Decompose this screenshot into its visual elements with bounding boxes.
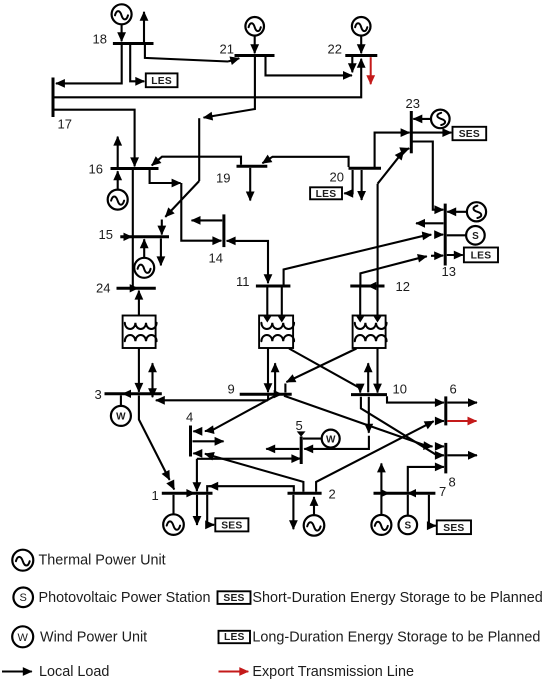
line 21-15 diagonal [165,181,199,217]
wire bus 11 to transformer [266,288,268,316]
wire gen 21 to bus 21 [254,36,256,54]
bus 10 [351,393,387,396]
wire bus 1 to SES [207,495,214,525]
svg-text:Wind Power Unit: Wind Power Unit [40,629,147,645]
bus 21 [235,54,275,57]
local load bus 14 [192,219,223,221]
line 14-11 arrow into bus 14 [227,240,233,242]
line 21-15 mid vertical [198,118,200,181]
bus 17 [52,78,55,118]
svg-text:SES: SES [221,520,242,531]
bus 14 [222,214,225,247]
local load bus 4 [193,440,224,442]
local load bus 16 [117,137,119,167]
thermal generator at bus 16 [108,190,128,210]
on-bar arrow bus 3 [122,390,131,398]
LES box at bus 18 [146,73,178,87]
wire PV 7 to bus 7 [407,495,409,516]
bus 15 [120,235,169,238]
thermal generator at bus 22 [352,17,371,36]
line 3-9 riser at bus 9 [267,396,269,401]
svg-text:LES: LES [316,189,337,200]
svg-text:24: 24 [96,281,110,296]
wire bus 12 to transformer [359,288,361,316]
wire gen 16 to bus 16 [117,171,119,189]
wire wind 3 to bus 3 [120,395,122,406]
on-bar arrow bus 9 [274,390,283,398]
local load bus 13 [416,222,444,224]
line 10-6 [387,396,444,402]
svg-text:23: 23 [406,96,420,111]
legend thermal power unit symbol [12,550,33,571]
SES box at bus 1 [215,518,248,531]
top triangle bus 5 [297,431,306,436]
bus 1 [162,492,213,495]
line 21-22 horizontal [266,57,353,75]
bus 13 [444,204,447,266]
bus 7 [374,492,436,495]
svg-text:22: 22 [328,42,342,57]
local load bus 1 [196,495,198,525]
line 5-1 [197,458,301,460]
svg-text:9: 9 [228,382,235,397]
SES box at bus 7 [437,520,471,534]
line 12-23 diagonal [378,151,404,184]
line 21-15 upper jog [204,57,255,118]
svg-text:SES: SES [443,523,464,534]
export transmission line at bus 22 [370,57,372,84]
wire gen 7 to bus 7 [380,495,382,515]
svg-text:13: 13 [442,264,456,279]
thermal generator at bus 7 [371,515,391,535]
bus 8 [444,443,447,474]
svg-text:1: 1 [152,488,159,503]
line 16-15-24 vertical [132,170,134,287]
SES box at bus 23 [453,127,487,140]
wire bus 20 to LES [344,170,352,193]
bus 3 [105,392,162,395]
line 21-22 stub at bus 22 [351,57,353,72]
line 11-13 diagonal [284,235,432,285]
line 11-13 arrow into bus 13 [436,234,444,236]
wire gen 1 to bus 1 [172,495,174,515]
transformer to bus 10 [376,348,378,393]
local load bus 9 [274,363,276,392]
wire gen 22 to bus 22 [360,36,362,54]
wire gen 23 to bus 23 [413,118,431,120]
legend SES box [218,591,251,604]
svg-text:W: W [18,632,29,644]
line 16-14 lower [181,183,221,241]
wire bus 18 to LES [130,45,144,81]
svg-text:Thermal Power Unit: Thermal Power Unit [39,552,166,568]
wire gen 2 to bus 2 [313,497,315,515]
line 20-23 [375,133,410,167]
local load bus 20 [361,170,363,200]
svg-text:17: 17 [58,117,72,132]
thermal generator at bus 13 [467,202,486,221]
wire gen 13 to bus 13 [447,211,467,213]
legend wind symbol [12,626,33,647]
local load bus 18 [143,12,145,42]
line 16-14 upper [150,170,181,183]
local load bus 7 [380,463,382,491]
svg-text:4: 4 [186,410,193,425]
thermal generator at bus 1 [163,514,184,535]
svg-text:LES: LES [224,632,245,643]
svg-text:12: 12 [396,279,410,294]
svg-text:S: S [20,592,27,604]
line 10-5 lower [304,436,369,449]
LES box at bus 20 [310,187,342,200]
line 3-9 stub at bus 3 [151,395,153,397]
svg-text:18: 18 [93,32,107,47]
transformer 12 diagonal to bus 9 [286,349,356,383]
transformer arrow into bus 24 [138,291,140,297]
svg-text:21: 21 [220,42,234,57]
bus 22 [345,54,377,57]
line 10-8 [361,397,444,456]
line 2-6 [316,421,434,492]
svg-text:7: 7 [439,484,446,499]
bus 20 [349,167,382,170]
line 1-2 [207,486,294,492]
bus 5 [300,437,303,465]
bus 19 [237,165,268,168]
line 12-23 arrow into bus 23 [405,148,410,150]
line 21-15 arrow into bus 15 [161,220,163,235]
wind unit at bus 3 [111,406,131,426]
svg-text:SES: SES [223,593,244,604]
transformer to bus 9 [267,348,269,392]
line 3-9 [156,399,268,401]
local load bus 19 [249,168,251,201]
thermal generator at bus 15 [134,258,154,278]
wire gen 18 to bus 18 [121,24,123,41]
wire bus 24 to transformer to bus 3 [138,294,140,316]
bus 18 [113,42,154,45]
svg-text:LES: LES [151,76,172,87]
local load bus 3 [151,363,153,392]
bus 2 [288,492,322,495]
line 14-11 [230,241,268,283]
svg-text:11: 11 [236,274,250,289]
local load bus 8 [447,454,477,456]
local load bus 2 [292,495,294,529]
line 10-5 upper [368,397,370,433]
wire gen 15 to bus 15 [143,239,145,258]
line 18-17 [56,45,122,83]
svg-text:8: 8 [449,475,456,490]
svg-text:16: 16 [89,162,103,177]
wire wind 5 to bus 5 [303,438,322,440]
svg-text:2: 2 [329,487,336,502]
bus 23 [410,111,413,153]
transformer 9-11 / 10-11 [259,316,294,349]
line 19-16 [152,157,241,166]
line 9-4 [205,396,275,431]
svg-text:15: 15 [99,227,113,242]
local load bus 15 [160,239,162,266]
line 12-13 diagonal [360,256,426,284]
legend photovoltaic symbol [13,588,33,608]
transformer 9-12 / 10-12 [353,316,387,349]
bus 9 [240,393,292,396]
svg-text:Short-Duration Energy Storage: Short-Duration Energy Storage to be Plan… [252,590,542,606]
svg-text:S: S [404,521,411,532]
line 18-21 [145,45,228,62]
bus 12 [350,285,384,288]
wind unit at bus 5 [322,430,340,448]
on-bar arrow bus 12 [368,282,377,290]
thermal generator at bus 2 [304,515,325,536]
local load bus 5 [266,448,299,450]
line 23-13 [411,142,443,210]
wire bus 13 to LES [447,254,463,256]
svg-text:W: W [116,412,126,423]
on-bar arrow bus 1 [186,489,195,497]
svg-text:SES: SES [459,129,480,140]
line 17-22 [55,59,362,98]
svg-text:14: 14 [209,251,223,266]
wire bus 23 to SES [413,132,452,134]
line 2-4 [205,454,304,492]
legend local load arrow [2,670,32,672]
svg-text:S: S [472,231,479,242]
svg-text:3: 3 [95,387,102,402]
thermal generator at bus 23 [431,110,450,129]
line 7-8 [408,467,444,492]
svg-text:LES: LES [471,251,492,262]
transformer 11 diagonal to bus 10 [289,349,360,393]
LES box at bus 13 [464,248,498,263]
line 17-16 [55,110,135,167]
svg-text:W: W [326,434,336,445]
bus 4 [189,426,192,457]
bus 24 [117,287,156,290]
local load bus 6 [447,402,477,404]
legend LES box [219,631,251,643]
svg-text:6: 6 [450,382,457,397]
line 12-23 vertical to bus 12 [377,184,379,285]
svg-text:Local Load: Local Load [39,664,109,680]
on-bar arrow bus 24 [130,284,139,292]
svg-text:Long-Duration Energy Storage t: Long-Duration Energy Storage to be Plann… [252,629,540,645]
transformer 3-24 [123,316,157,349]
bus 6 [444,396,447,425]
wire bus 7 to SES [429,495,436,526]
thermal generator at bus 21 [245,17,264,36]
legend export transmission line arrow [219,671,249,673]
on-bar arrows bus 7 [381,489,390,497]
thermal generator at bus 18 [112,4,132,24]
export transmission line at bus 6 [447,420,476,422]
svg-text:10: 10 [393,382,407,397]
local load bus 10 [367,363,369,392]
bus 11 [256,285,291,288]
line 9-8 [284,396,433,447]
bus 16 [111,167,159,170]
svg-text:Export Transmission Line: Export Transmission Line [252,664,414,680]
line 12-13 arrow into bus 13 [431,255,443,257]
on-bar arrow bus 15 [124,233,133,241]
line 20-19 [262,157,348,167]
wire PV 13 to bus 13 [447,234,467,236]
photovoltaic station at bus 13 [466,226,485,245]
svg-text:19: 19 [216,171,230,186]
svg-text:5: 5 [296,418,303,433]
svg-text:Photovoltaic Power Station: Photovoltaic Power Station [39,590,211,606]
svg-text:20: 20 [330,170,344,185]
line 3-1 [139,396,170,480]
photovoltaic station at bus 7 [399,516,418,535]
